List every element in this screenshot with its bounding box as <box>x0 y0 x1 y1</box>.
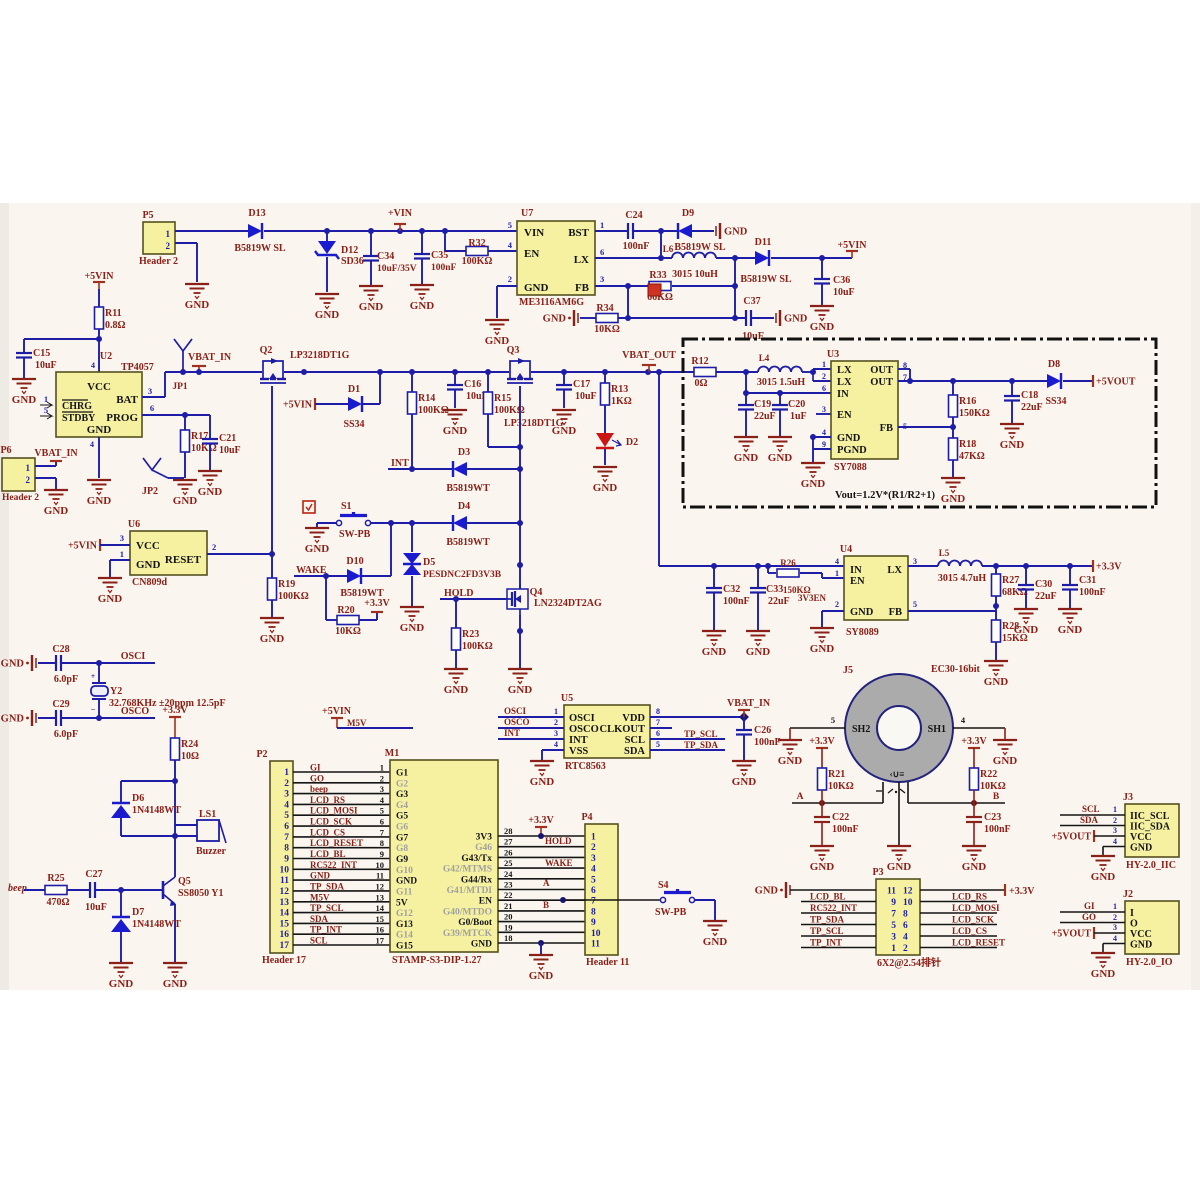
svg-text:RC522_INT: RC522_INT <box>310 860 357 870</box>
svg-text:STAMP-S3-DIP-1.27: STAMP-S3-DIP-1.27 <box>392 955 482 966</box>
svg-text:B: B <box>543 900 549 910</box>
svg-text:5: 5 <box>831 715 835 725</box>
svg-text:EN: EN <box>837 410 852 421</box>
power +3.3V R22 <box>961 736 987 768</box>
ground C19 <box>734 437 759 464</box>
svg-text:LN2324DT2AG: LN2324DT2AG <box>534 598 602 609</box>
svg-text:C19: C19 <box>754 399 771 410</box>
resistor R13 <box>601 372 632 433</box>
capacitor C32 <box>706 566 750 630</box>
node OSCO <box>121 706 150 717</box>
svg-text:7: 7 <box>656 718 660 727</box>
svg-text:GND: GND <box>12 394 37 406</box>
svg-text:2: 2 <box>835 600 839 609</box>
wire M1 right bus <box>498 826 585 943</box>
svg-text:1N4148WT: 1N4148WT <box>132 805 181 816</box>
svg-text:3: 3 <box>284 790 289 800</box>
ground C16 <box>443 410 468 437</box>
svg-text:LX: LX <box>887 565 902 576</box>
wire J5 pin4 <box>953 715 1005 739</box>
ground Q4 <box>508 669 533 696</box>
svg-text:1: 1 <box>835 569 839 578</box>
wire OSCO U5 <box>498 717 564 728</box>
wire J5 pin5 <box>790 715 845 739</box>
capacitor C35 <box>414 231 457 284</box>
wire LX pins split <box>810 369 831 381</box>
svg-text:23: 23 <box>504 880 513 890</box>
wire LX <box>595 257 672 259</box>
svg-text:D12: D12 <box>341 245 358 256</box>
svg-text:D7: D7 <box>132 907 144 918</box>
svg-text:+5VIN: +5VIN <box>283 400 313 411</box>
wire S1 left <box>317 523 336 527</box>
node beep <box>8 883 27 894</box>
capacitor C15 <box>16 348 57 378</box>
svg-text:GI: GI <box>1084 901 1095 911</box>
wire P5 pin2 to ground <box>175 243 197 282</box>
svg-text:J3: J3 <box>1123 792 1133 803</box>
resistor R33 <box>647 270 673 303</box>
ground C32 <box>702 631 727 658</box>
svg-text:3: 3 <box>380 784 384 794</box>
svg-text:G5: G5 <box>396 812 408 822</box>
resistor R28 <box>992 611 1028 660</box>
resistor R34 <box>594 303 620 335</box>
svg-text:TP_INT: TP_INT <box>810 938 842 948</box>
svg-text:4: 4 <box>822 428 826 437</box>
power +5VIN top <box>837 240 867 258</box>
wire VCC J3 <box>1094 835 1125 837</box>
svg-text:1KΩ: 1KΩ <box>611 396 632 407</box>
svg-text:R27: R27 <box>1002 575 1019 586</box>
svg-text:+: + <box>91 672 96 681</box>
svg-text:−: − <box>91 705 96 714</box>
diode D9 <box>674 208 726 253</box>
wire R34 out <box>618 315 746 321</box>
svg-text:3: 3 <box>148 386 152 396</box>
svg-text:2: 2 <box>212 542 216 552</box>
svg-text:LCD_RESET: LCD_RESET <box>310 838 363 848</box>
svg-text:D3: D3 <box>458 447 470 458</box>
wire OSCI <box>61 660 155 666</box>
svg-text:U4: U4 <box>840 544 852 555</box>
svg-text:GND: GND <box>755 886 779 897</box>
power +3.3V P3 <box>1005 884 1035 897</box>
svg-text:D2: D2 <box>626 437 638 448</box>
svg-text:M5V: M5V <box>310 892 330 902</box>
svg-text:R12: R12 <box>691 356 708 367</box>
svg-text:WAKE: WAKE <box>545 858 573 868</box>
wire VBAT main left <box>165 369 262 375</box>
svg-text:3015 10uH: 3015 10uH <box>672 269 718 280</box>
svg-text:R11: R11 <box>105 308 122 319</box>
wire D9 gnd <box>692 230 714 232</box>
svg-text:13: 13 <box>280 898 290 908</box>
wire VSS U5 <box>542 750 564 760</box>
svg-text:LCD_CS: LCD_CS <box>310 827 345 837</box>
svg-text:GND: GND <box>941 493 966 505</box>
resistor R11 <box>95 307 126 372</box>
svg-text:GND: GND <box>444 684 469 696</box>
svg-text:4: 4 <box>835 557 839 566</box>
svg-text:1uF: 1uF <box>790 411 807 422</box>
svg-text:R19: R19 <box>278 579 295 590</box>
svg-text:LCD_CS: LCD_CS <box>952 926 987 936</box>
svg-text:SD36: SD36 <box>341 256 364 267</box>
wire U6 vcc <box>100 544 130 546</box>
svg-text:C33: C33 <box>766 584 783 595</box>
svg-text:LX: LX <box>837 365 852 376</box>
svg-text:HOLD: HOLD <box>545 836 572 846</box>
svg-text:G6: G6 <box>396 823 408 833</box>
svg-text:24: 24 <box>504 869 513 879</box>
capacitor C20 <box>772 393 807 436</box>
wire IN net <box>743 372 831 396</box>
svg-text:G42/MTMS: G42/MTMS <box>443 865 492 875</box>
power VBAT_IN U5 <box>727 698 771 717</box>
svg-text:GND: GND <box>784 314 808 325</box>
svg-text:Header 11: Header 11 <box>586 957 629 968</box>
svg-text:3: 3 <box>1113 826 1117 835</box>
ground R23 <box>444 669 469 696</box>
svg-text:2: 2 <box>1113 816 1117 825</box>
svg-text:+3.3V: +3.3V <box>364 598 390 609</box>
svg-text:S4: S4 <box>658 880 669 891</box>
svg-text:PGND: PGND <box>837 445 867 456</box>
wire P6 pin2 <box>35 478 56 489</box>
svg-text:10: 10 <box>376 860 385 870</box>
svg-text:22uF: 22uF <box>1021 402 1043 413</box>
diode D6 <box>111 793 181 836</box>
svg-text:2: 2 <box>591 843 596 853</box>
resistor R16 <box>949 381 990 430</box>
svg-text:INT: INT <box>504 728 520 738</box>
svg-text:GND: GND <box>443 425 468 437</box>
svg-text:100nF: 100nF <box>431 263 457 273</box>
svg-text:OUT: OUT <box>870 377 893 388</box>
wire EN to S4 <box>560 897 660 903</box>
svg-text:G3: G3 <box>396 790 408 800</box>
diode D3 <box>446 447 490 494</box>
svg-text:LCD_MOSI: LCD_MOSI <box>310 806 358 816</box>
svg-text:SW-PB: SW-PB <box>339 529 371 540</box>
svg-text:5: 5 <box>508 220 512 230</box>
svg-text:7: 7 <box>591 897 596 907</box>
svg-text:12: 12 <box>376 881 385 891</box>
svg-text:2: 2 <box>284 779 289 789</box>
wire S4 right <box>695 900 715 920</box>
svg-text:B5819WT: B5819WT <box>446 483 490 494</box>
ground D12 <box>315 294 340 321</box>
svg-text:GND: GND <box>173 495 198 507</box>
op-amp U4 SY8089 <box>835 544 917 638</box>
svg-text:R17: R17 <box>191 431 208 442</box>
svg-text:+3.3V: +3.3V <box>961 736 987 747</box>
svg-text:GND: GND <box>984 676 1009 688</box>
wire FB <box>595 283 648 289</box>
svg-text:RTC8563: RTC8563 <box>565 761 606 772</box>
svg-text:R24: R24 <box>181 739 198 750</box>
svg-text:GO: GO <box>1082 912 1096 922</box>
svg-text:B5819WT: B5819WT <box>446 537 490 548</box>
svg-text:GND: GND <box>410 300 435 312</box>
ground C23 <box>962 846 987 873</box>
power +5VIN D1 <box>283 398 315 411</box>
svg-text:26: 26 <box>504 847 513 857</box>
svg-text:D9: D9 <box>682 208 694 219</box>
svg-text:G15: G15 <box>396 942 413 952</box>
svg-text:GND: GND <box>198 486 223 498</box>
svg-text:R33: R33 <box>649 270 666 281</box>
wire M5V <box>337 718 413 728</box>
svg-text:GND: GND <box>163 978 188 990</box>
svg-text:G12: G12 <box>396 909 413 919</box>
svg-text:18: 18 <box>504 933 513 943</box>
ground R17 <box>173 480 198 507</box>
svg-text:10: 10 <box>903 898 913 908</box>
diode D8 <box>1045 359 1066 407</box>
svg-text:+3.3V: +3.3V <box>528 815 554 826</box>
svg-text:1: 1 <box>591 833 596 843</box>
svg-text:+3.3V: +3.3V <box>1096 562 1122 573</box>
power +3.3V R21 <box>809 736 835 768</box>
resistor R25 <box>45 873 70 908</box>
svg-text:22: 22 <box>504 890 513 900</box>
svg-text:4: 4 <box>903 933 908 943</box>
wire GND J2 <box>1103 944 1125 953</box>
svg-text:5V: 5V <box>396 898 408 908</box>
svg-text:10uF: 10uF <box>575 391 597 402</box>
svg-text:D5: D5 <box>423 557 435 568</box>
ground port C29 <box>1 710 36 726</box>
formula note <box>835 490 935 501</box>
svg-text:3015 1.5uH: 3015 1.5uH <box>757 377 806 388</box>
wire VBAT main mid <box>284 369 509 375</box>
svg-text:LCD_SCK: LCD_SCK <box>952 915 994 925</box>
svg-text:OUT: OUT <box>870 365 893 376</box>
resistor R20 <box>335 605 361 637</box>
svg-text:SDA: SDA <box>1080 815 1099 825</box>
power VBAT_IN P6 <box>34 448 78 461</box>
transistor Q5 <box>163 876 223 906</box>
wire LX-FB vertical <box>732 258 738 321</box>
resistor R12 <box>691 356 758 389</box>
svg-text:Q2: Q2 <box>260 345 273 356</box>
ground U6 <box>98 578 123 605</box>
svg-text:20: 20 <box>504 912 513 922</box>
svg-text:0.8Ω: 0.8Ω <box>105 320 126 331</box>
svg-text:I: I <box>1130 908 1134 919</box>
ground S4 <box>703 921 728 948</box>
svg-text:1: 1 <box>822 360 826 369</box>
svg-text:2: 2 <box>554 718 558 727</box>
wire R20 out <box>359 612 377 620</box>
wire U4 gnd <box>822 611 844 627</box>
svg-text:10uF: 10uF <box>833 287 855 298</box>
svg-text:GND: GND <box>315 309 340 321</box>
svg-text:GND: GND <box>98 593 123 605</box>
svg-text:13: 13 <box>376 892 385 902</box>
svg-text:R14: R14 <box>418 393 435 404</box>
ground D5 <box>400 607 425 634</box>
crystal Y2 <box>91 663 226 718</box>
svg-text:U6: U6 <box>128 519 140 530</box>
capacitor C22 <box>814 803 859 845</box>
svg-text:10: 10 <box>591 929 601 939</box>
ground C30 <box>1014 609 1039 636</box>
svg-text:1: 1 <box>891 944 896 954</box>
wire P6 pin1 <box>35 461 56 466</box>
svg-text:3V3: 3V3 <box>476 833 493 843</box>
wire net A <box>792 792 883 806</box>
svg-text:3: 3 <box>913 557 917 566</box>
wire D4 out <box>467 520 523 526</box>
svg-text:SY7088: SY7088 <box>834 462 867 473</box>
ground C31 <box>1058 609 1083 636</box>
LED D2 <box>596 433 638 465</box>
svg-text:16: 16 <box>280 930 290 940</box>
svg-text:3: 3 <box>120 533 124 543</box>
svg-text:G9: G9 <box>396 855 408 865</box>
diode D4 <box>446 501 490 548</box>
svg-text:C30: C30 <box>1035 579 1052 590</box>
svg-text:100KΩ: 100KΩ <box>278 591 309 602</box>
svg-text:SH2: SH2 <box>852 724 870 735</box>
svg-text:17: 17 <box>280 941 290 951</box>
svg-text:GND: GND <box>734 452 759 464</box>
ground port GND D9 <box>716 223 748 239</box>
inductor L6 <box>663 244 718 280</box>
ground U7 <box>485 320 510 347</box>
svg-text:R21: R21 <box>828 769 845 780</box>
capacitor C37 <box>742 296 764 342</box>
wire SCL J3 <box>1060 804 1125 815</box>
svg-text:SW-PB: SW-PB <box>655 907 687 918</box>
ground J5 pin5 <box>778 740 803 767</box>
svg-text:GND: GND <box>260 633 285 645</box>
capacitor C21 <box>202 415 241 470</box>
ground C17 <box>552 410 577 437</box>
svg-text:1: 1 <box>284 768 289 778</box>
svg-text:SS8050 Y1: SS8050 Y1 <box>178 888 223 899</box>
svg-text:GND: GND <box>87 495 112 507</box>
capacitor C33 <box>750 566 790 630</box>
wire SDA J3 <box>1060 815 1125 826</box>
svg-text:U5: U5 <box>561 693 573 704</box>
svg-text:10KΩ: 10KΩ <box>980 781 1006 792</box>
svg-text:GND: GND <box>801 478 826 490</box>
ground C22 <box>810 846 835 873</box>
svg-text:6: 6 <box>600 247 604 257</box>
ground C18 <box>1000 424 1025 451</box>
diode D7 <box>111 890 181 962</box>
svg-text:8: 8 <box>284 844 289 854</box>
svg-text:LX: LX <box>574 254 589 266</box>
svg-text:GND: GND <box>1 714 25 725</box>
resistor R14 <box>408 372 449 469</box>
svg-text:5: 5 <box>656 740 660 749</box>
svg-text:TP_SDA: TP_SDA <box>810 915 845 925</box>
wire J5 A pin <box>882 782 884 803</box>
svg-text:GND: GND <box>850 607 874 618</box>
ground D2 <box>593 467 618 494</box>
svg-text:19: 19 <box>504 922 513 932</box>
svg-text:GND: GND <box>778 755 803 767</box>
svg-text:100nF: 100nF <box>984 824 1011 835</box>
svg-text:LCD_SCK: LCD_SCK <box>310 817 352 827</box>
svg-text:GND: GND <box>109 978 134 990</box>
svg-text:GND: GND <box>44 505 69 517</box>
svg-text:C17: C17 <box>573 379 590 390</box>
svg-text:GND: GND <box>1000 439 1025 451</box>
svg-text:G11: G11 <box>396 887 413 897</box>
svg-text:1: 1 <box>166 229 171 239</box>
wire CLKOUT stub <box>650 727 672 729</box>
wire C37 out <box>751 317 774 319</box>
node WAKE <box>294 565 347 579</box>
svg-text:GND: GND <box>593 482 618 494</box>
ground C35 <box>410 285 435 312</box>
svg-text:D6: D6 <box>132 793 144 804</box>
wire R15 to gate <box>488 444 523 450</box>
wire Q4 source <box>517 615 523 668</box>
resistor R19 <box>268 554 309 617</box>
svg-text:R34: R34 <box>596 303 613 314</box>
resistor R15 <box>484 372 525 447</box>
svg-text:G1: G1 <box>396 769 408 779</box>
svg-text:LX: LX <box>837 377 852 388</box>
svg-text:‹∪≡: ‹∪≡ <box>890 769 905 779</box>
wire U4 LX <box>908 565 938 567</box>
ground C34 <box>359 286 384 313</box>
svg-text:C18: C18 <box>1021 390 1038 401</box>
wire OSCI U5 <box>498 706 564 717</box>
svg-text:SDA: SDA <box>624 746 645 757</box>
svg-text:U7: U7 <box>521 208 533 219</box>
ground P6 <box>44 490 69 517</box>
ground C26 <box>732 761 757 788</box>
svg-text:SCL: SCL <box>1082 804 1100 814</box>
wire S1 right <box>371 520 453 526</box>
svg-text:VBAT_IN: VBAT_IN <box>34 448 78 459</box>
svg-text:10uF: 10uF <box>35 360 57 371</box>
svg-text:GND: GND <box>1 659 25 670</box>
svg-text:BAT: BAT <box>116 394 138 406</box>
wire P5 pin1 <box>175 230 248 232</box>
svg-text:C32: C32 <box>723 584 740 595</box>
node VBAT_IN <box>188 352 232 372</box>
svg-text:HY-2.0_IIC: HY-2.0_IIC <box>1126 860 1176 871</box>
svg-text:25: 25 <box>504 858 513 868</box>
svg-text:A: A <box>543 878 550 888</box>
svg-text:D11: D11 <box>755 237 772 248</box>
svg-text:6X2@2.54排针: 6X2@2.54排针 <box>877 956 941 969</box>
buzzer LS1 <box>196 809 227 857</box>
svg-text:11: 11 <box>887 887 896 897</box>
svg-text:GND: GND <box>1058 624 1083 636</box>
svg-text:CHRG: CHRG <box>62 401 92 412</box>
wire D6 bottom <box>121 833 178 839</box>
svg-text:TP4057: TP4057 <box>121 362 154 373</box>
ground U5 <box>530 761 555 788</box>
svg-text:LS1: LS1 <box>199 809 216 820</box>
wire P3 right bus <box>920 892 1005 948</box>
svg-text:LCD_RS: LCD_RS <box>952 892 987 902</box>
op-amp U7 ME3116AM6G <box>508 208 605 308</box>
svg-text:4: 4 <box>1113 837 1117 846</box>
svg-text:JP2: JP2 <box>142 486 158 497</box>
op-amp U2 TP4057 <box>40 351 154 437</box>
